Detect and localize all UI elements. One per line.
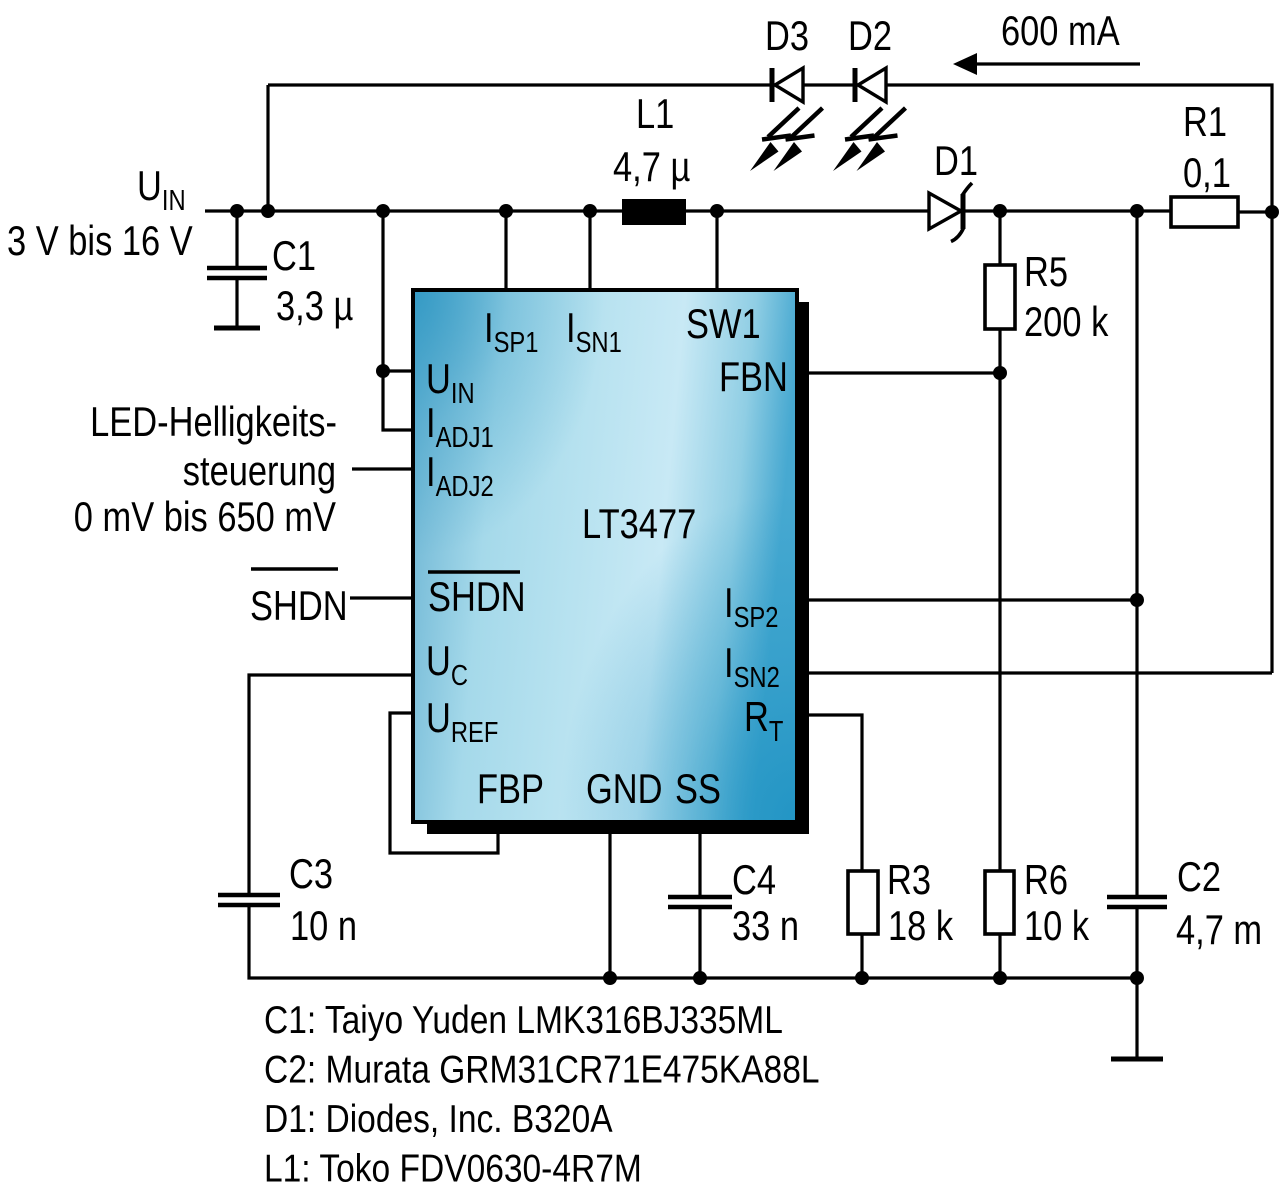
svg-text:FBP: FBP xyxy=(477,765,544,812)
svg-text:SHDN: SHDN xyxy=(428,573,526,620)
svg-text:0 mV bis 650 mV: 0 mV bis 650 mV xyxy=(74,493,336,540)
svg-text:10 n: 10 n xyxy=(290,902,357,949)
svg-text:L1: Toko FDV0630-4R7M: L1: Toko FDV0630-4R7M xyxy=(264,1148,642,1191)
svg-text:C2: C2 xyxy=(1177,853,1221,900)
svg-text:R3: R3 xyxy=(887,856,931,903)
svg-text:C1: C1 xyxy=(272,232,316,279)
svg-text:FBN: FBN xyxy=(719,353,788,400)
svg-text:C1: Taiyo Yuden LMK316BJ335ML: C1: Taiyo Yuden LMK316BJ335ML xyxy=(264,999,783,1042)
svg-text:600 mA: 600 mA xyxy=(1001,7,1120,54)
svg-text:0,1: 0,1 xyxy=(1183,149,1231,196)
svg-text:D1: Diodes, Inc. B320A: D1: Diodes, Inc. B320A xyxy=(264,1098,613,1141)
svg-text:GND: GND xyxy=(586,765,663,812)
svg-text:3,3 µ: 3,3 µ xyxy=(276,282,353,329)
svg-text:SS: SS xyxy=(675,765,721,812)
svg-text:C4: C4 xyxy=(732,856,776,903)
svg-text:C3: C3 xyxy=(289,850,333,897)
svg-text:18 k: 18 k xyxy=(888,902,954,949)
svg-text:D2: D2 xyxy=(848,12,892,59)
svg-text:LT3477: LT3477 xyxy=(582,500,696,547)
svg-text:steuerung: steuerung xyxy=(183,447,336,494)
svg-text:R6: R6 xyxy=(1024,856,1068,903)
svg-text:SHDN: SHDN xyxy=(250,582,348,629)
svg-text:L1: L1 xyxy=(636,90,674,137)
svg-text:200 k: 200 k xyxy=(1024,298,1109,345)
svg-text:D1: D1 xyxy=(934,137,978,184)
svg-text:3 V bis 16 V: 3 V bis 16 V xyxy=(7,217,193,264)
svg-text:4,7 m: 4,7 m xyxy=(1176,906,1262,953)
svg-text:SW1: SW1 xyxy=(686,300,761,347)
svg-text:R1: R1 xyxy=(1183,98,1227,145)
svg-text:D3: D3 xyxy=(765,12,809,59)
svg-text:4,7 µ: 4,7 µ xyxy=(613,143,690,190)
svg-text:C2: Murata GRM31CR71E475KA88L: C2: Murata GRM31CR71E475KA88L xyxy=(264,1049,820,1092)
svg-text:10 k: 10 k xyxy=(1024,902,1090,949)
svg-text:33 n: 33 n xyxy=(732,902,799,949)
svg-text:LED-Helligkeits-: LED-Helligkeits- xyxy=(90,398,337,445)
svg-text:R5: R5 xyxy=(1024,248,1068,295)
